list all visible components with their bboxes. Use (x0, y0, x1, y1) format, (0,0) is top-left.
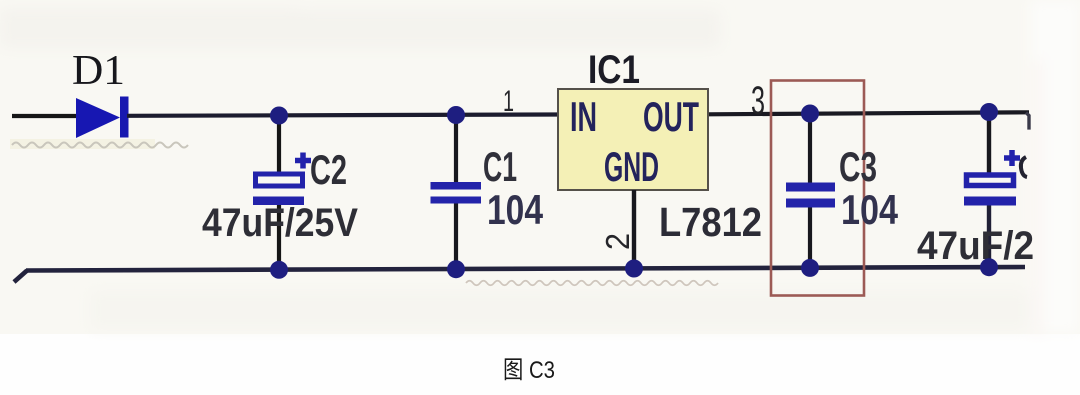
junction node top C3 (801, 105, 819, 123)
wire: C3 vertical top (808, 114, 812, 184)
junction node bottom C1 (447, 260, 465, 278)
wire: C3 vertical bottom (808, 206, 812, 268)
svg-text:2: 2 (599, 233, 636, 250)
svg-text:OUT: OUT (643, 93, 699, 140)
C4 polarity plus (1004, 150, 1020, 166)
wire: C1 vertical bottom (454, 201, 458, 270)
wire: C1 vertical top (454, 115, 458, 184)
wire: C2 vertical top (277, 116, 281, 176)
wire: C4 vertical bottom (987, 203, 991, 268)
capacitor C3 plates (786, 183, 835, 208)
C2 polarity plus (295, 153, 311, 169)
wire: top rail left segment (12, 114, 78, 118)
svg-text:C3: C3 (839, 143, 877, 190)
capacitor C1 plates (431, 182, 482, 204)
wavy artifact under bottom wire (466, 281, 718, 286)
svg-text:104: 104 (841, 186, 899, 233)
svg-text:IN: IN (570, 93, 597, 140)
svg-text:C1: C1 (483, 143, 517, 190)
tint under diode squiggle (10, 139, 155, 149)
svg-text:104: 104 (487, 186, 544, 233)
wire: top rail middle segment (127, 115, 558, 116)
diode D1 (76, 97, 129, 139)
junction node bottom C4 (980, 258, 998, 276)
junction node bottom GND (625, 260, 643, 278)
svg-text:图 C3: 图 C3 (503, 357, 555, 384)
junction node top C1 (447, 106, 465, 124)
highlight box around C3 (771, 81, 864, 296)
svg-text:D1: D1 (72, 48, 125, 94)
wire: C4 vertical top (987, 113, 991, 176)
svg-text:L7812: L7812 (659, 199, 762, 245)
svg-text:IC1: IC1 (588, 48, 640, 92)
capacitor C2 plates (253, 174, 304, 205)
wire: bottom rail (26, 267, 1025, 271)
svg-text:GND: GND (604, 143, 659, 190)
partial label C4 (cut) (1021, 157, 1027, 177)
wire: GND pin vertical (632, 190, 636, 269)
wire: bottom rail left stub (14, 271, 27, 283)
svg-text:47uF/25V: 47uF/25V (202, 201, 358, 245)
svg-text:47uF/2: 47uF/2 (917, 224, 1034, 268)
wire: top rail right end corner (1026, 113, 1029, 130)
capacitor C4 plates (964, 175, 1016, 206)
svg-text:3: 3 (751, 79, 765, 123)
svg-text:1: 1 (503, 85, 514, 118)
wire: top rail right segment (708, 112, 1029, 114)
junction node bottom C2 (270, 261, 288, 279)
svg-text:C2: C2 (310, 146, 347, 193)
wavy artifact under diode (12, 143, 188, 148)
wire: C2 vertical bottom (277, 202, 281, 270)
junction node top C4 (980, 103, 998, 121)
junction node top C2 (270, 107, 288, 125)
junction node bottom C3 (801, 259, 819, 277)
voltage regulator IC1 body (558, 89, 708, 190)
